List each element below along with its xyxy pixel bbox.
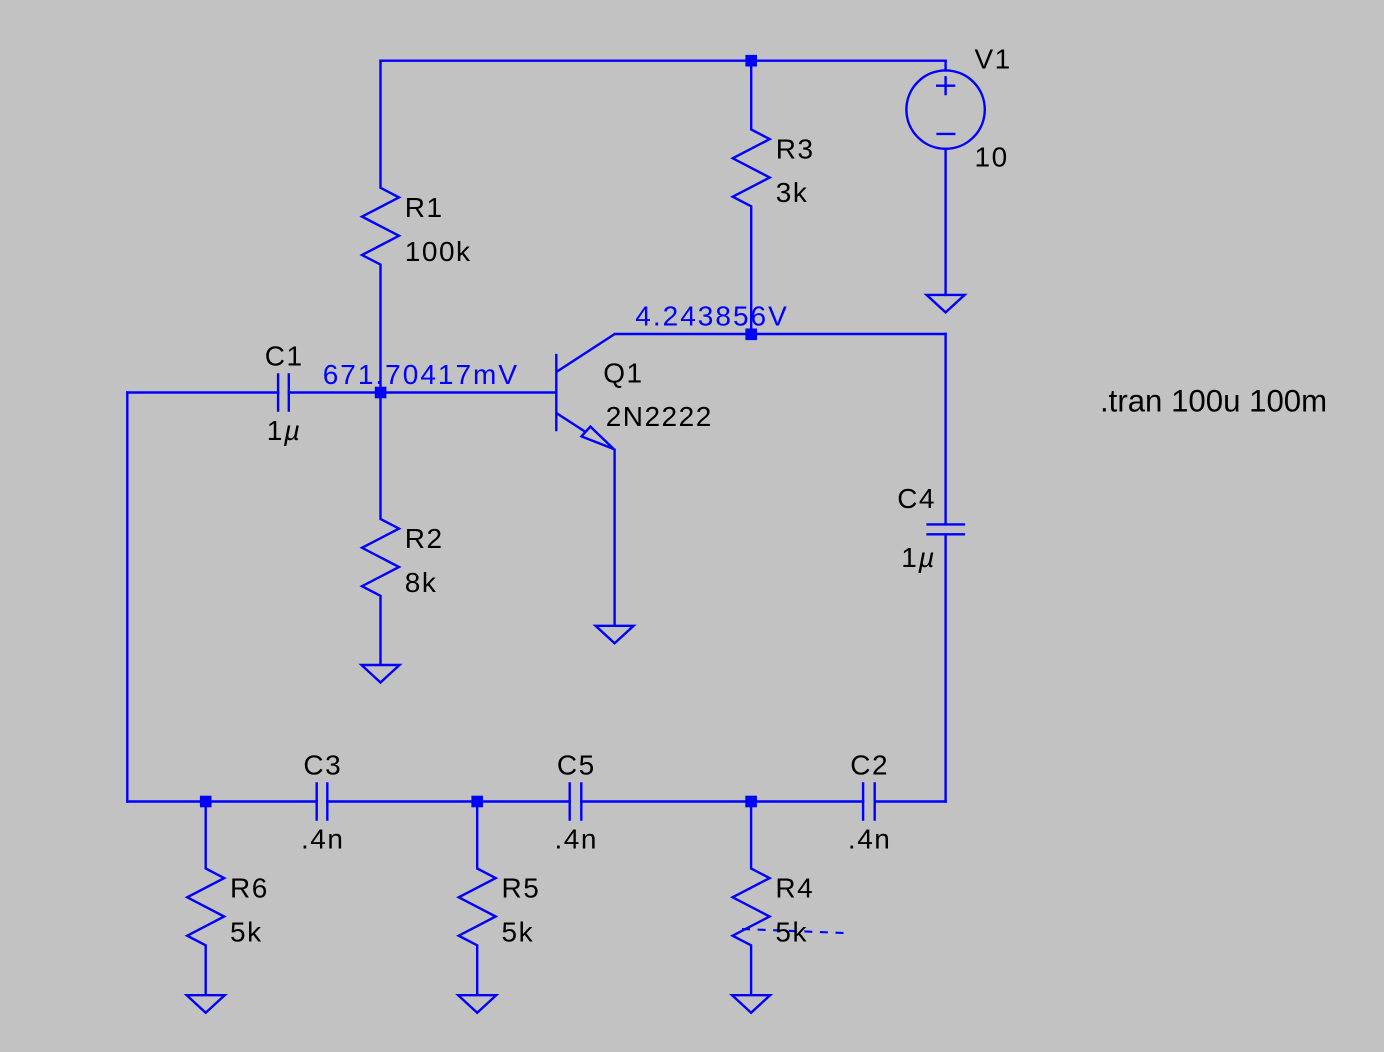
resistor R2 8k with leads [362, 393, 399, 666]
node junction bus R6 [200, 796, 212, 808]
transistor Q1 2N2222 [556, 334, 614, 449]
ground below R6 [187, 995, 225, 1013]
svg-text:C5: C5 [557, 750, 596, 781]
wire left vertical feedback [126, 393, 128, 802]
capacitor C3 plates [317, 782, 328, 820]
svg-text:Q1: Q1 [603, 358, 643, 389]
wire bottom bus segment 3 [581, 800, 863, 802]
svg-text:1µ: 1µ [901, 542, 936, 573]
capacitor C4 plates [926, 524, 965, 534]
wire Q1 emitter lead [613, 450, 615, 626]
svg-text:.tran 100u 100m: .tran 100u 100m [1100, 384, 1327, 419]
capacitor C2 plates [863, 782, 875, 820]
node junction top rail / R3 [745, 55, 757, 67]
resistor R1 100k with leads [362, 61, 399, 393]
svg-text:.4n: .4n [301, 824, 344, 855]
resistor R5 5k with leads [459, 802, 496, 996]
svg-text:V1: V1 [975, 44, 1012, 75]
node junction bus R4 [745, 796, 757, 808]
svg-text:1µ: 1µ [267, 415, 302, 446]
resistor R3 3k with leads [733, 61, 770, 335]
svg-text:.4n: .4n [555, 824, 598, 855]
ground below R4 [732, 995, 770, 1013]
wire bottom bus segment 1 [127, 800, 316, 802]
svg-text:5k: 5k [502, 917, 535, 948]
wire C4 top lead [944, 334, 946, 524]
svg-text:5k: 5k [230, 917, 263, 948]
wire C1 left lead [127, 391, 278, 393]
svg-text:C4: C4 [897, 483, 936, 514]
svg-text:100k: 100k [405, 236, 472, 267]
capacitor C1 plates [278, 373, 289, 411]
svg-text:4.243856V: 4.243856V [635, 300, 788, 331]
svg-text:671.70417mV: 671.70417mV [323, 359, 519, 390]
svg-text:5k: 5k [775, 917, 808, 948]
ground below R5 [458, 995, 496, 1013]
svg-text:R6: R6 [230, 873, 269, 904]
svg-text:R3: R3 [776, 134, 815, 165]
svg-text:R4: R4 [775, 873, 814, 904]
svg-text:R1: R1 [405, 192, 444, 223]
resistor R4 5k with leads [733, 802, 770, 996]
svg-text:.4n: .4n [848, 824, 891, 855]
ground below Q1 emitter [596, 626, 634, 644]
node junction collector 4.24V [745, 329, 757, 341]
svg-text:2N2222: 2N2222 [606, 401, 713, 432]
svg-text:R5: R5 [502, 873, 541, 904]
svg-text:10: 10 [975, 141, 1009, 172]
wire C4 bottom lead [944, 534, 946, 801]
wire bottom bus segment 2 [327, 800, 569, 802]
node junction base 671mV [375, 387, 387, 399]
resistor R6 5k with leads [187, 802, 224, 996]
node junction bus R5 [471, 796, 483, 808]
svg-text:C2: C2 [850, 750, 889, 781]
wire top rail [381, 60, 946, 62]
svg-text:C3: C3 [303, 750, 342, 781]
wire C1 to Q1 base [289, 391, 557, 393]
wire Q1 collector to C4 corner [615, 333, 946, 335]
ground below V1 [927, 295, 965, 313]
svg-text:R2: R2 [405, 523, 444, 554]
voltage source V1 [906, 61, 984, 295]
capacitor C5 plates [570, 782, 582, 820]
wire dashed fragment near R4 [742, 929, 844, 933]
wire bottom bus segment 4 [875, 800, 946, 802]
svg-text:C1: C1 [265, 341, 304, 372]
ground below R2 [362, 665, 400, 683]
svg-text:3k: 3k [776, 177, 809, 208]
svg-text:8k: 8k [405, 567, 438, 598]
